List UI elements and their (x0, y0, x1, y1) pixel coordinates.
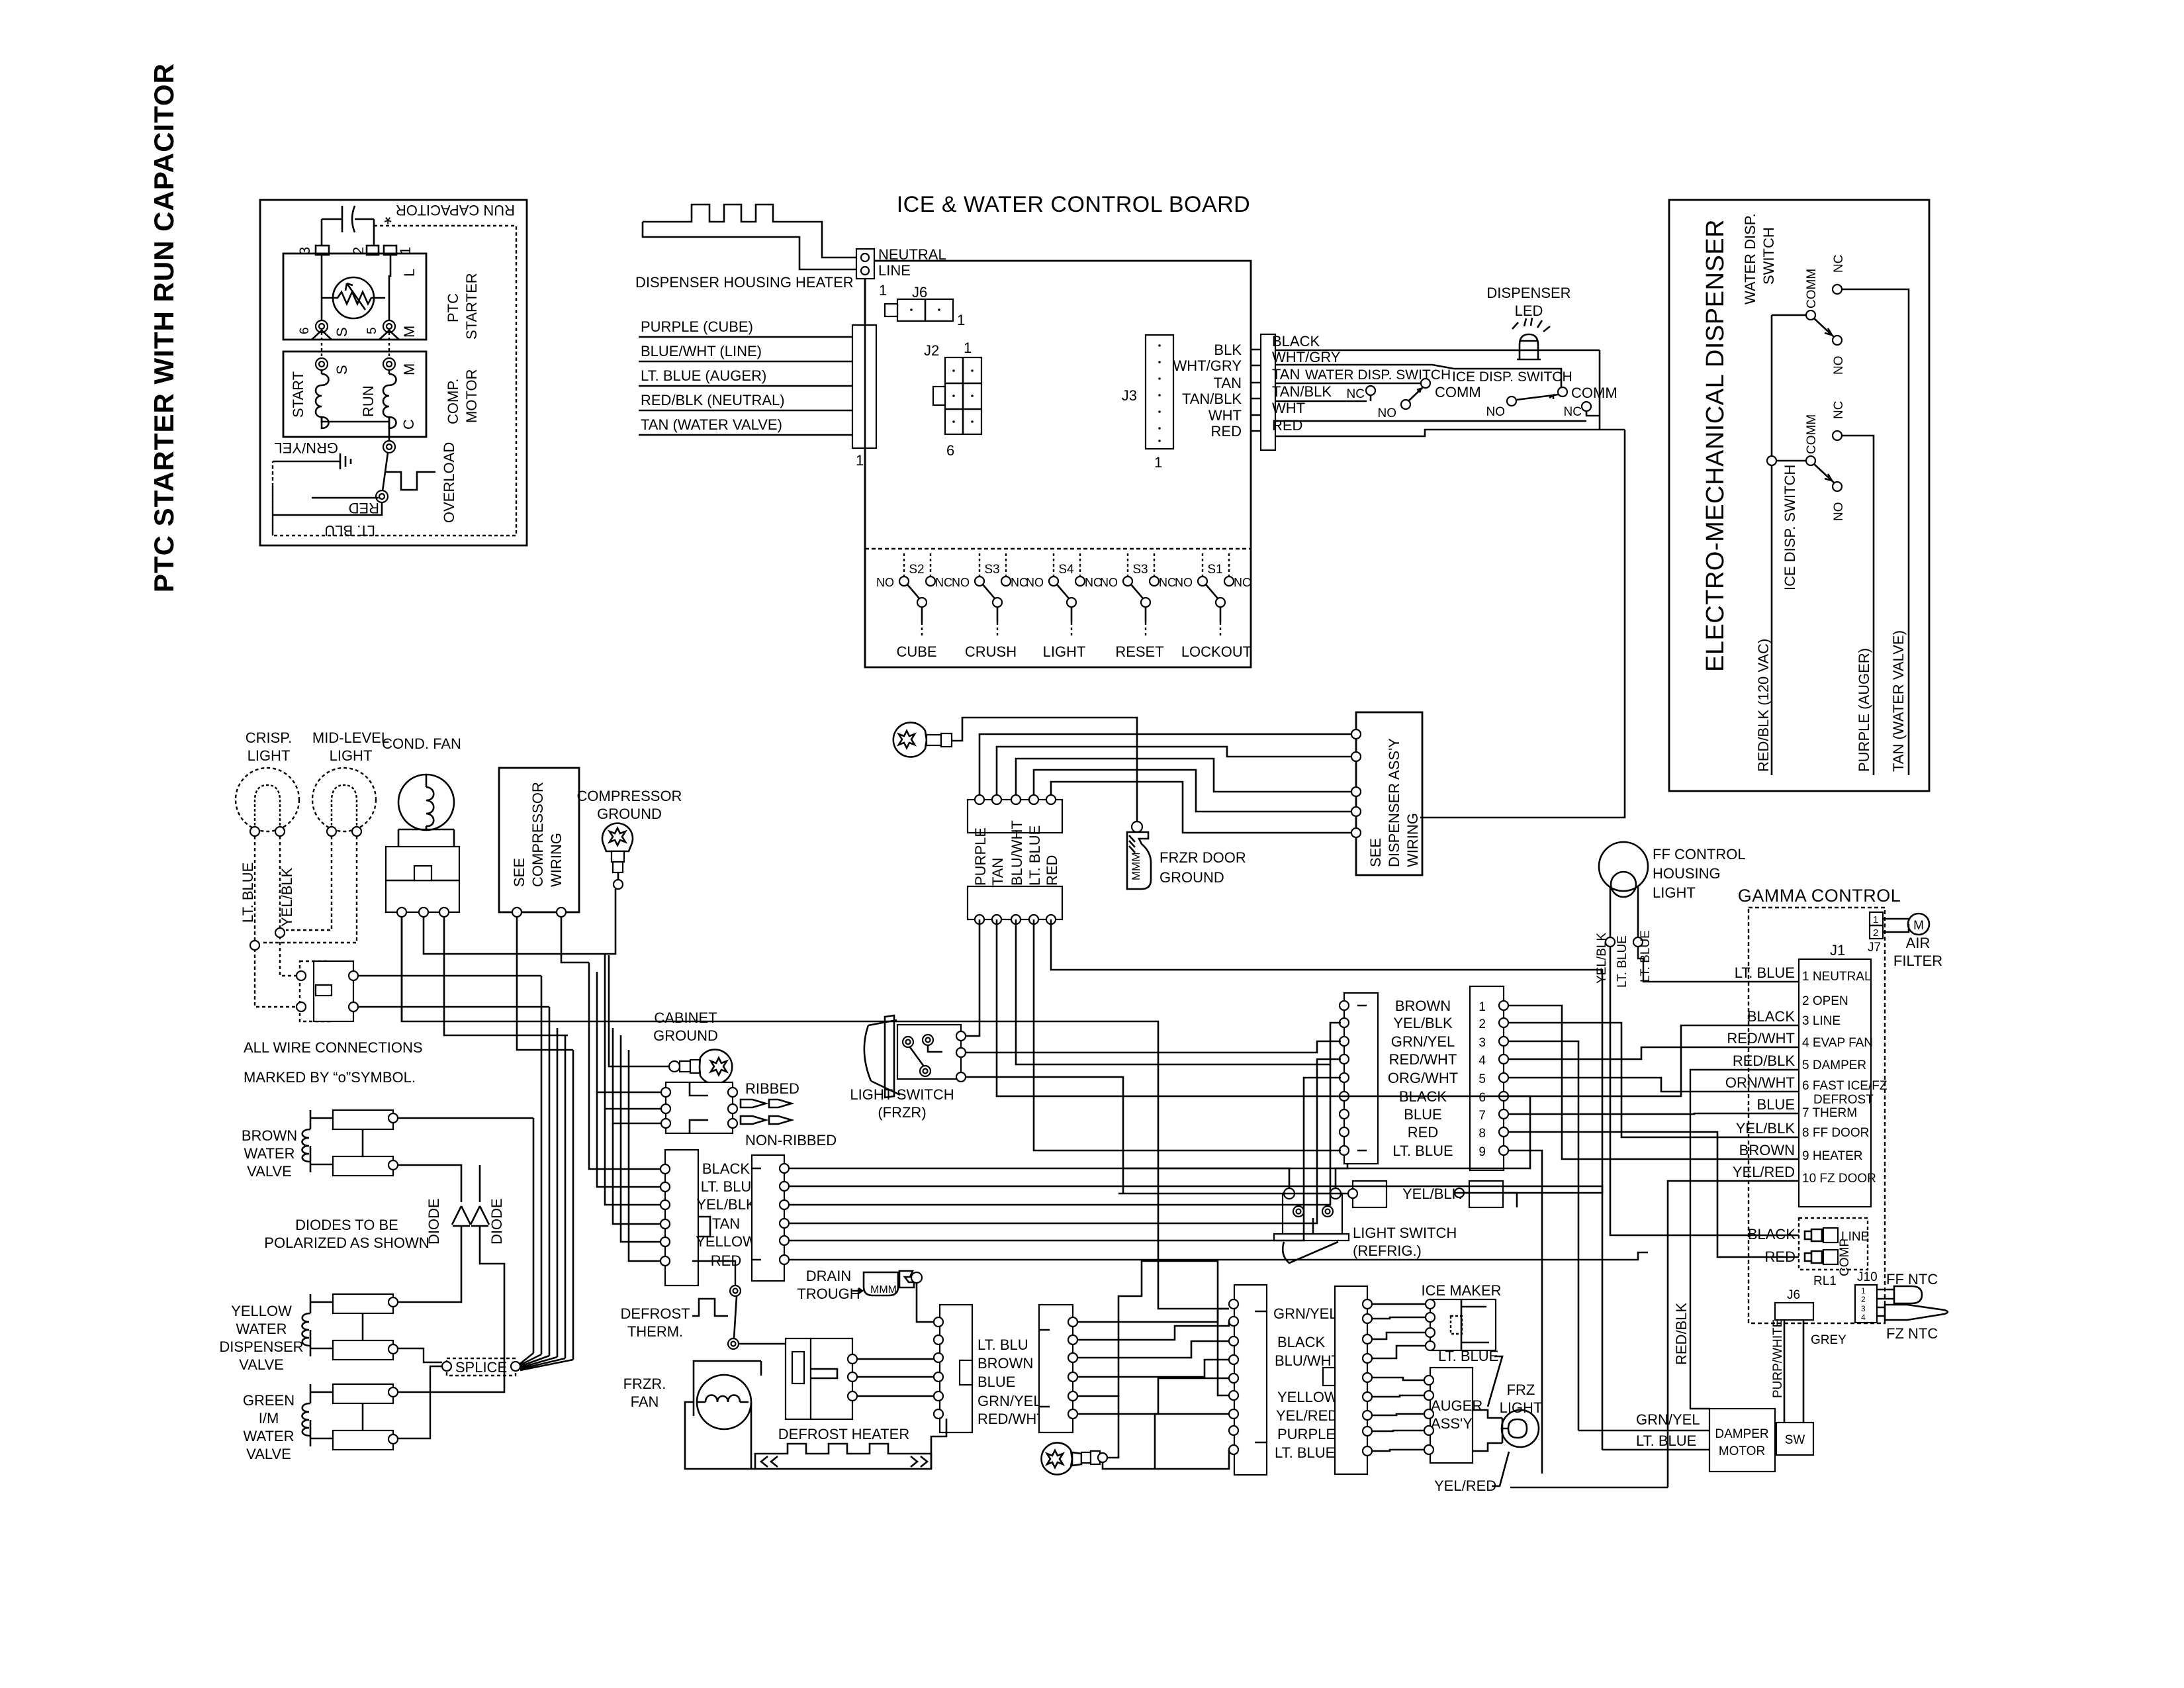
svg-text:HOUSING: HOUSING (1653, 865, 1721, 882)
svg-text:9 HEATER: 9 HEATER (1802, 1149, 1863, 1163)
PTC inset inner dashed box (273, 226, 516, 536)
LED return wire (1599, 350, 1601, 430)
svg-text:4: 4 (1479, 1054, 1486, 1068)
board edge connector (1261, 334, 1275, 450)
connector D (1039, 1305, 1073, 1432)
svg-text:LIGHT SWITCH: LIGHT SWITCH (850, 1086, 954, 1103)
svg-text:GRN/YEL: GRN/YEL (1391, 1033, 1455, 1050)
svg-text:RED: RED (1211, 423, 1242, 440)
svg-text:RED/WHT: RED/WHT (1389, 1051, 1457, 1068)
svg-text:RUN: RUN (360, 385, 377, 417)
svg-text:BLACK: BLACK (1748, 1226, 1796, 1243)
relay RL1 (1799, 1218, 1868, 1270)
wires F to auger (1372, 1378, 1424, 1380)
run winding (383, 370, 396, 428)
wire windings common (322, 417, 389, 442)
ground lug GND5 (1042, 1443, 1072, 1475)
svg-text:PURPLE: PURPLE (1277, 1426, 1336, 1442)
svg-text:MMM: MMM (1130, 853, 1142, 880)
yel/blk connector Y2 (1469, 1181, 1503, 1207)
long harness wires left to right (789, 1096, 1530, 1168)
svg-text:MOTOR: MOTOR (463, 369, 480, 423)
PTC inset outer box (260, 200, 527, 545)
svg-text:CUBE: CUBE (896, 643, 936, 660)
terminal 6 (S) (316, 320, 328, 332)
wire brown valve top feed (398, 1117, 533, 1119)
svg-text:FF CONTROL: FF CONTROL (1653, 846, 1746, 863)
svg-text:3: 3 (1479, 1036, 1486, 1050)
dispenser connector block upper (968, 800, 1062, 833)
svg-text:RIBBED: RIBBED (745, 1080, 799, 1097)
svg-text:NC: NC (1564, 405, 1582, 419)
wire therm lever to timer (739, 1343, 786, 1345)
svg-text:S2: S2 (909, 563, 924, 577)
svg-text:3: 3 (1861, 1304, 1866, 1313)
wire BLACK to RL1 (1610, 1023, 1799, 1235)
PTC resistor disc (333, 277, 374, 318)
svg-text:J2: J2 (924, 342, 939, 359)
svg-text:1: 1 (957, 312, 965, 328)
svg-text:START: START (290, 371, 306, 418)
svg-text:5: 5 (365, 327, 379, 334)
svg-text:J7: J7 (1868, 941, 1881, 955)
svg-text:GROUND: GROUND (1160, 869, 1224, 886)
svg-text:WHT/GRY: WHT/GRY (1272, 349, 1341, 365)
svg-text:RED/BLK: RED/BLK (1733, 1053, 1795, 1069)
pin 1 (384, 246, 396, 255)
svg-text:NO: NO (1832, 502, 1846, 522)
svg-text:PURPLE: PURPLE (972, 827, 989, 886)
wire lug to GRN/YEL (1077, 1396, 1118, 1458)
terminal block NEUTRAL/LINE (856, 249, 874, 279)
svg-text:DISPENSER ASS'Y: DISPENSER ASS'Y (1386, 738, 1402, 867)
svg-text:NO: NO (876, 576, 894, 589)
svg-text:NO: NO (1486, 405, 1506, 419)
see compressor wiring box (499, 768, 579, 912)
svg-text:BLACK: BLACK (1272, 333, 1320, 350)
svg-text:1: 1 (879, 282, 887, 299)
wire heater to fan (685, 1402, 755, 1469)
svg-text:NO: NO (1100, 576, 1118, 589)
wire bundle verticals (533, 976, 573, 1360)
svg-text:LIGHT SWITCH: LIGHT SWITCH (1353, 1225, 1457, 1241)
wires B pins to J1 (1508, 1006, 1799, 1159)
svg-text:COMM: COMM (1571, 385, 1617, 401)
svg-text:LT. BLUE: LT. BLUE (1392, 1143, 1453, 1159)
svg-text:DIODE: DIODE (426, 1198, 442, 1244)
svg-text:(FRZR): (FRZR) (878, 1104, 926, 1121)
wire overload to LT.BLU (273, 502, 382, 515)
svg-text:LT. BLUE: LT. BLUE (1735, 964, 1795, 981)
pin 3 (316, 246, 329, 255)
svg-text:1: 1 (856, 452, 864, 469)
svg-text:ASS'Y: ASS'Y (1431, 1415, 1473, 1432)
svg-text:1 NEUTRAL: 1 NEUTRAL (1802, 970, 1872, 984)
svg-text:NO: NO (1175, 576, 1193, 589)
svg-text:YELLOW: YELLOW (1277, 1389, 1338, 1405)
auger assembly AG1 (1430, 1368, 1473, 1463)
svg-text:COMPRESSOR: COMPRESSOR (529, 782, 546, 887)
svg-text:LT. BLUE: LT. BLUE (1438, 1348, 1498, 1364)
svg-text:WIRING: WIRING (1404, 813, 1421, 867)
svg-text:J1: J1 (1830, 942, 1845, 959)
svg-text:YELLOW: YELLOW (696, 1233, 756, 1250)
svg-text:SEE: SEE (511, 858, 527, 887)
svg-text:LIGHT: LIGHT (248, 747, 291, 764)
svg-text:PURPLE (CUBE): PURPLE (CUBE) (641, 318, 753, 335)
svg-text:YEL/RED: YEL/RED (1276, 1407, 1338, 1424)
svg-text:YELLOW: YELLOW (231, 1303, 292, 1319)
svg-text:ICE DISP. SWITCH: ICE DISP. SWITCH (1452, 369, 1572, 385)
svg-text:NC: NC (1832, 401, 1846, 419)
svg-text:WHT/GRY: WHT/GRY (1173, 357, 1242, 374)
svg-text:POLARIZED AS SHOWN: POLARIZED AS SHOWN (264, 1235, 429, 1251)
PTC starter box (283, 254, 426, 340)
svg-text:NO: NO (1832, 356, 1846, 375)
svg-text:LED: LED (1515, 303, 1543, 319)
svg-text:FRZR DOOR: FRZR DOOR (1160, 849, 1246, 866)
svg-text:DRAIN: DRAIN (806, 1268, 851, 1284)
svg-text:WATER DISP.: WATER DISP. (1742, 213, 1758, 305)
svg-text:GAMMA CONTROL: GAMMA CONTROL (1738, 886, 1901, 906)
svg-text:S3: S3 (1132, 563, 1148, 577)
wire cabinet ground feed (609, 955, 669, 1066)
junction B (250, 941, 259, 950)
air filter motor M3 (1883, 919, 1909, 932)
svg-text:COMP.: COMP. (445, 379, 461, 424)
splice fan-out wires (520, 1353, 573, 1370)
svg-text:7 THERM: 7 THERM (1802, 1106, 1857, 1120)
svg-text:COMM: COMM (1805, 414, 1819, 454)
svg-text:RL1: RL1 (1813, 1274, 1837, 1288)
wire mid lamp drops (261, 836, 357, 943)
svg-text:ORN/WHT: ORN/WHT (1725, 1074, 1795, 1091)
wire to dispenser assy (1420, 430, 1625, 818)
svg-text:LIGHT: LIGHT (1043, 643, 1086, 660)
connector B 9-pin (1470, 986, 1504, 1170)
svg-text:NO: NO (952, 576, 970, 589)
wire YEL/RED to J1 (1510, 1181, 1799, 1487)
svg-text:SEE: SEE (1367, 838, 1384, 867)
svg-text:GROUND: GROUND (597, 806, 662, 822)
svg-text:COMP: COMP (1838, 1239, 1852, 1276)
svg-text:ICE DISP. SWITCH: ICE DISP. SWITCH (1782, 465, 1798, 590)
svg-text:PURPLE (AUGER): PURPLE (AUGER) (1856, 648, 1872, 772)
switch S4 LIGHT (1049, 553, 1085, 638)
svg-text:NON-RIBBED: NON-RIBBED (745, 1132, 837, 1149)
svg-text:8: 8 (1479, 1127, 1486, 1141)
light switch (FRZR) SW-LF (885, 1015, 894, 1098)
svg-text:BROWN: BROWN (1739, 1142, 1795, 1158)
wires to connector C (966, 919, 979, 1036)
wire water NC to TAN rail (1842, 289, 1909, 775)
wires light switch frzr (966, 1041, 1341, 1053)
ice disp switch SW-ID (1767, 456, 1776, 465)
wires compressor terminals (402, 917, 1229, 1309)
svg-text:BROWN: BROWN (1395, 998, 1451, 1014)
svg-text:L: L (401, 269, 418, 277)
dispenser housing heater R-DH (643, 205, 856, 258)
wire RED/BLK rail (1771, 315, 1773, 775)
svg-text:NC: NC (1832, 255, 1846, 273)
svg-text:NC: NC (935, 576, 952, 589)
svg-text:TAN: TAN (712, 1215, 740, 1232)
svg-text:ELECTRO-MECHANICAL DISPENSER: ELECTRO-MECHANICAL DISPENSER (1702, 219, 1729, 672)
svg-text:FRZ: FRZ (1507, 1382, 1535, 1398)
switch S3 CRUSH (975, 553, 1011, 638)
svg-text:NO: NO (1378, 406, 1397, 420)
svg-text:DIODES TO BE: DIODES TO BE (295, 1217, 398, 1233)
svg-text:6: 6 (946, 442, 954, 459)
pin 2 (367, 246, 379, 255)
connector E (1234, 1285, 1267, 1475)
svg-text:MARKED BY “o”SYMBOL.: MARKED BY “o”SYMBOL. (244, 1069, 416, 1086)
svg-text:M: M (1913, 919, 1924, 933)
wires starter to motor (321, 332, 322, 359)
connector A (1344, 993, 1378, 1164)
wire drain trough to C (917, 1283, 934, 1322)
svg-text:ORG/WHT: ORG/WHT (1388, 1070, 1458, 1086)
svg-text:S4: S4 (1058, 563, 1074, 577)
connector J3 (1146, 335, 1173, 449)
switch SW (1776, 1423, 1813, 1455)
svg-text:DISPENSER: DISPENSER (1486, 285, 1570, 301)
svg-text:YEL/BLK: YEL/BLK (1402, 1186, 1462, 1202)
svg-text:SWITCH: SWITCH (1760, 227, 1777, 285)
svg-text:ALL WIRE CONNECTIONS: ALL WIRE CONNECTIONS (244, 1039, 423, 1056)
svg-text:BLUE: BLUE (1404, 1106, 1441, 1123)
svg-text:YEL/RED: YEL/RED (1733, 1164, 1795, 1180)
svg-text:8 FF DOOR: 8 FF DOOR (1802, 1126, 1869, 1140)
svg-text:LT. BLUE: LT. BLUE (1026, 825, 1043, 886)
switch S2 CUBE (899, 553, 935, 638)
svg-text:7: 7 (1479, 1109, 1486, 1123)
wire E to bundle (1118, 1261, 1229, 1396)
terminal C junction (383, 441, 395, 453)
wire LT. BLUE lamp to J1 (1638, 947, 1799, 982)
svg-text:FRZR.: FRZR. (623, 1376, 666, 1392)
svg-text:1: 1 (964, 340, 972, 356)
svg-text:GREY: GREY (1811, 1333, 1846, 1347)
svg-text:AUGER: AUGER (1431, 1397, 1482, 1414)
svg-text:NC: NC (1234, 576, 1251, 589)
svg-text:BLU/WHT: BLU/WHT (1009, 820, 1025, 886)
svg-text:S: S (334, 327, 350, 337)
svg-text:DEFROST HEATER: DEFROST HEATER (778, 1426, 909, 1442)
svg-text:DIODE: DIODE (488, 1198, 505, 1244)
svg-text:RED/BLK (120 VAC): RED/BLK (120 VAC) (1755, 639, 1772, 772)
svg-text:VALVE: VALVE (239, 1356, 284, 1373)
wires F to ice maker (1372, 1303, 1426, 1305)
svg-text:BLUE: BLUE (1757, 1096, 1795, 1113)
wires bundle to L1 (589, 954, 661, 1169)
svg-text:1: 1 (1873, 914, 1878, 925)
svg-text:VALVE: VALVE (246, 1446, 291, 1462)
svg-text:TAN/BLK: TAN/BLK (1272, 383, 1332, 400)
svg-text:1: 1 (1479, 1000, 1486, 1014)
motor S terminal (316, 358, 328, 370)
svg-text:LT. BLU: LT. BLU (324, 522, 375, 539)
comp motor box (283, 352, 426, 437)
svg-text:RESET: RESET (1115, 643, 1163, 660)
svg-text:GRN/YEL: GRN/YEL (1273, 1305, 1338, 1322)
svg-text:DAMPER: DAMPER (1715, 1427, 1768, 1441)
svg-text:LINE: LINE (878, 262, 911, 279)
ribbed connector RB1 (666, 1082, 733, 1133)
electro-mechanical dispenser box (1669, 200, 1929, 791)
connector J2 header (852, 325, 876, 448)
water disp switch SW-WD (1772, 314, 1806, 316)
frzr door ground GND4 (1132, 821, 1142, 832)
start winding (316, 370, 329, 428)
svg-text:3 LINE: 3 LINE (1802, 1014, 1841, 1028)
svg-text:MOTOR: MOTOR (1719, 1444, 1765, 1458)
svg-text:TROUGH: TROUGH (797, 1286, 860, 1302)
svg-text:10 FZ DOOR: 10 FZ DOOR (1802, 1172, 1876, 1186)
svg-text:WATER: WATER (236, 1321, 287, 1337)
svg-text:FZ NTC: FZ NTC (1886, 1325, 1938, 1342)
defrost timer block (786, 1338, 811, 1419)
junction A (275, 928, 285, 937)
freezer lights switch SW-FL (300, 961, 330, 1021)
svg-text:TAN (WATER VALVE): TAN (WATER VALVE) (641, 416, 782, 433)
svg-text:YEL/BLK: YEL/BLK (279, 867, 295, 927)
svg-text:LIGHT: LIGHT (1500, 1399, 1543, 1416)
svg-text:TAN: TAN (989, 858, 1006, 886)
svg-text:BLACK: BLACK (1747, 1008, 1795, 1025)
svg-text:I/M: I/M (259, 1410, 279, 1427)
svg-text:S3: S3 (984, 563, 999, 577)
svg-text:6: 6 (298, 327, 312, 334)
svg-text:NC: NC (1347, 387, 1365, 401)
svg-text:GRN/YEL: GRN/YEL (978, 1393, 1042, 1409)
wire heater to C (931, 1419, 946, 1469)
svg-text:MMM: MMM (870, 1284, 897, 1295)
svg-text:S1: S1 (1207, 563, 1222, 577)
svg-text:LT. BLUE (AUGER): LT. BLUE (AUGER) (641, 367, 766, 384)
overload heater bracket (386, 472, 435, 490)
svg-text:RED/WHT: RED/WHT (978, 1411, 1046, 1427)
svg-text:GREEN: GREEN (243, 1392, 295, 1409)
svg-text:GRN/YEL: GRN/YEL (274, 440, 338, 456)
svg-text:BROWN: BROWN (242, 1127, 297, 1144)
svg-text:RED: RED (349, 500, 379, 516)
connector R1 (752, 1155, 784, 1281)
label RED (312, 497, 379, 499)
wire YEL/BLK feed (1118, 1193, 1348, 1195)
svg-text:1: 1 (1154, 454, 1162, 471)
svg-text:LT. BLUE: LT. BLUE (1275, 1444, 1335, 1461)
wire RED/BLK to damper (1690, 1070, 1799, 1409)
svg-text:LT. BLUE: LT. BLUE (1639, 930, 1653, 982)
ground GRN/YEL (273, 461, 340, 463)
switch row divider (865, 548, 1251, 549)
svg-text:STARTER: STARTER (463, 273, 480, 340)
TAN/BLK NC contact (1366, 386, 1375, 395)
svg-text:GROUND: GROUND (653, 1027, 718, 1044)
svg-text:*: * (384, 206, 392, 228)
svg-text:RED: RED (1044, 855, 1060, 886)
wire pin3 to S contact (321, 255, 323, 321)
wire board left edge (864, 279, 866, 667)
water disp switch SW-W (1421, 379, 1430, 388)
svg-text:PTC: PTC (445, 293, 461, 322)
svg-text:DEFROST: DEFROST (620, 1305, 690, 1322)
svg-text:RED: RED (1272, 417, 1302, 434)
svg-text:MID-LEVEL: MID-LEVEL (312, 729, 389, 746)
svg-text:RED: RED (1408, 1124, 1438, 1141)
svg-text:J3: J3 (1122, 387, 1137, 404)
svg-text:LT. BLUE: LT. BLUE (1636, 1432, 1696, 1449)
wires D to E (1077, 1309, 1229, 1322)
wire ice NC to PURPLE rail (1842, 436, 1874, 775)
svg-text:DEFROST: DEFROST (1813, 1093, 1874, 1107)
svg-text:LT. BLU: LT. BLU (978, 1336, 1028, 1353)
wire therm top (692, 1261, 735, 1286)
svg-text:TAN (WATER VALVE): TAN (WATER VALVE) (1890, 630, 1907, 772)
svg-text:BLACK: BLACK (702, 1160, 750, 1177)
svg-text:CRISP.: CRISP. (246, 729, 293, 746)
splice SP1 (447, 1358, 516, 1376)
svg-text:VALVE: VALVE (247, 1163, 292, 1180)
svg-text:DISPENSER: DISPENSER (219, 1338, 303, 1355)
svg-text:LIGHT: LIGHT (330, 747, 373, 764)
svg-text:ICE & WATER CONTROL BOARD: ICE & WATER CONTROL BOARD (897, 192, 1251, 217)
svg-text:WHT: WHT (1208, 407, 1242, 424)
yel/blk connector Y1 (1353, 1181, 1387, 1207)
svg-text:COMM: COMM (1805, 269, 1819, 308)
motor M terminal (383, 358, 395, 370)
FF control housing light LP4 (1599, 842, 1648, 891)
svg-text:PURP/WHITE: PURP/WHITE (1771, 1319, 1785, 1398)
svg-text:OVERLOAD: OVERLOAD (441, 442, 457, 523)
svg-text:J6: J6 (912, 284, 927, 301)
svg-text:1: 1 (1861, 1286, 1866, 1295)
connector F (1335, 1286, 1367, 1474)
wire cap to pin2 (373, 219, 375, 246)
svg-text:AIR: AIR (1906, 935, 1931, 951)
svg-text:LOCKOUT: LOCKOUT (1181, 643, 1251, 660)
connector J7 (1870, 912, 1883, 939)
svg-text:THERM.: THERM. (627, 1323, 683, 1340)
svg-text:YEL/RED: YEL/RED (1434, 1477, 1496, 1494)
svg-text:TAN: TAN (1214, 375, 1242, 391)
wires timer to C (857, 1359, 934, 1396)
svg-text:BLACK: BLACK (1277, 1334, 1325, 1350)
svg-text:COMM: COMM (1435, 384, 1481, 400)
svg-text:LT. BLUE: LT. BLUE (240, 863, 256, 923)
svg-text:WHT: WHT (1272, 400, 1305, 416)
svg-text:PTC STARTER WITH RUN CAPACITOR: PTC STARTER WITH RUN CAPACITOR (148, 63, 179, 592)
svg-text:9: 9 (1479, 1145, 1486, 1159)
svg-text:BLUE: BLUE (978, 1374, 1015, 1390)
damper motor M4 (1709, 1409, 1775, 1472)
switch S3 RESET (1123, 553, 1159, 638)
overload contact (376, 491, 388, 502)
wire YEL/BLK lamp down (1610, 947, 1612, 1023)
svg-text:SW: SW (1785, 1433, 1805, 1447)
svg-text:FAN: FAN (631, 1393, 659, 1410)
svg-text:5: 5 (1479, 1072, 1486, 1086)
svg-text:TAN: TAN (1272, 366, 1300, 383)
svg-text:4 EVAP FAN: 4 EVAP FAN (1802, 1036, 1873, 1050)
cond fan terminals (397, 908, 406, 917)
svg-text:LT. BLUE: LT. BLUE (1615, 935, 1629, 988)
switch S1 LOCKOUT (1198, 553, 1234, 638)
svg-text:YEL/BLK: YEL/BLK (696, 1196, 756, 1213)
svg-text:6: 6 (1479, 1091, 1486, 1105)
svg-text:4: 4 (1861, 1313, 1866, 1322)
